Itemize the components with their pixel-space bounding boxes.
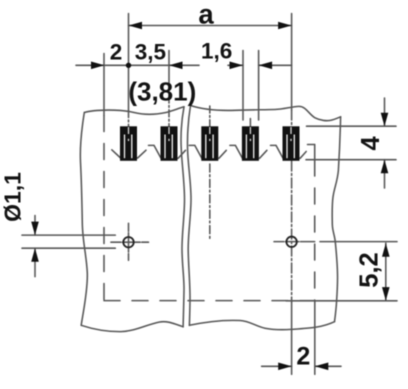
dimension line dim 4 upper tail [384, 98, 386, 126]
arrow dim 1,6 right (points left) [259, 62, 273, 70]
extension line pad5 centerline upper [291, 14, 293, 111]
extension line pad4 slot right [258, 51, 260, 121]
extension line dim 4 bottom [306, 159, 396, 161]
hole H2 crosshair horizontal [274, 241, 315, 243]
pin mark pad5 right diagonal [300, 152, 306, 159]
housing outline dashed right edge [314, 160, 316, 301]
dimension line 1,6 left tail [228, 64, 243, 66]
board outline right piece right edge [332, 117, 340, 322]
svg-text:3,5: 3,5 [135, 40, 166, 65]
arrow bottom dim 2 right (points left) [315, 363, 329, 371]
pad P1 [120, 126, 137, 161]
dimension line 1,6 right tail [259, 64, 292, 66]
arrow dim 5,2 top (points up) [382, 243, 390, 257]
hole H1 crosshair vertical [128, 223, 130, 260]
pin mark pad4 right diagonal [260, 150, 267, 158]
svg-text:(3,81): (3,81) [128, 77, 196, 107]
extension line dia 1,1 bottom [22, 247, 115, 249]
pin mark pad4 left [230, 145, 243, 158]
extension line for dim 2 top (housing left edge) [103, 54, 105, 116]
pad P3 slot lines [205, 135, 207, 159]
arrow dia 1,1 upper (points down) [31, 222, 39, 236]
dimension line dia 1,1 lower arrow tail [34, 248, 36, 276]
arrow dim a left [129, 22, 143, 30]
svg-text:4: 4 [357, 135, 385, 150]
pin mark pad1 left diagonal [112, 150, 121, 158]
dimension line 2 and 3,5 [76, 64, 199, 66]
extension line bottom dim 2 right [314, 301, 316, 375]
hole H1 circle [123, 237, 133, 247]
extension line dim 4 top [307, 125, 397, 127]
arrow dia 1,1 lower (points up) [31, 248, 39, 262]
svg-text:5,2: 5,2 [356, 252, 384, 287]
pad P2 [161, 126, 178, 161]
arrow dim 5,2 bottom (points down) [382, 287, 390, 301]
hole H1 crosshair horizontal [111, 241, 149, 243]
svg-text:1,6: 1,6 [201, 38, 232, 63]
pad P2 slot lines [164, 135, 166, 159]
pad P3 [201, 126, 218, 161]
extension line pad4 slot left [242, 51, 244, 121]
housing outline right edge solid stub [314, 145, 316, 162]
origin dot dim 2/3,5 [126, 63, 131, 68]
pad P4 [242, 126, 259, 161]
dimension line bottom 2 right tail [315, 365, 341, 367]
pad1 centerline dash-dot above pad [128, 111, 130, 127]
arrow dim a right [278, 22, 292, 30]
svg-text:2: 2 [110, 39, 123, 64]
pad P5 slot lines [286, 135, 288, 159]
board outline left piece left edge [80, 113, 87, 326]
arrow dim 4 lower (points up) [381, 160, 389, 174]
hole H2 circle [286, 237, 296, 247]
arrow dim 2 top (points right) [91, 62, 105, 70]
board outline right piece bottom edge [189, 320, 334, 329]
svg-text:Ø1,1: Ø1,1 [0, 172, 26, 222]
pad P1 slot lines [124, 135, 126, 159]
dimension line dim 4 lower tail [384, 160, 386, 188]
housing outline top bracket stub [308, 144, 315, 146]
pad5 centerline solid lower [291, 302, 293, 374]
pin mark pad2 right diagonal [178, 150, 185, 158]
pin mark pad3 right diagonal [219, 150, 226, 158]
pad4 centerline dash above pad [249, 119, 251, 127]
housing outline dashed left edge [103, 116, 105, 301]
pad3 centerline dash-dot above pad [209, 106, 211, 127]
dimension line dim 5,2 [385, 243, 387, 300]
dimension line a [129, 25, 292, 27]
pad3 centerline dash-dot below pad [209, 164, 211, 240]
extension line dia 1,1 top [22, 234, 115, 236]
pad2 centerline dash-dot above pad [168, 96, 170, 127]
dimension line dia 1,1 upper arrow tail [34, 216, 36, 236]
arrow dim 3,5 (points left) [169, 62, 183, 70]
board outline right piece top edge [191, 106, 341, 121]
housing outline dashed bottom edge [104, 300, 315, 302]
extension line pad2 centerline upper [168, 51, 170, 97]
arrow bottom dim 2 left (points right) [278, 363, 292, 371]
board outline left piece bottom edge [81, 322, 183, 332]
pin mark pad3 left [189, 145, 202, 158]
extension line dim 5,2 bottom [286, 300, 397, 302]
pin mark pad1 right diagonal [138, 150, 146, 158]
svg-text:2: 2 [296, 343, 310, 371]
board outline left piece top edge [84, 107, 184, 115]
pin mark pad2 left [149, 145, 162, 158]
arrow dim 1,6 left (points right) [230, 62, 244, 70]
board tear left edge [181, 107, 184, 327]
board tear right edge [188, 106, 191, 326]
pad5 centerline dash-dot through board [291, 110, 293, 302]
svg-text:a: a [198, 0, 214, 30]
extension line pad1 centerline upper [128, 14, 130, 111]
extension line dim 5,2 top [320, 241, 397, 243]
arrow dim 4 upper (points down) [381, 113, 389, 127]
pad P5 [283, 126, 300, 161]
dimension line bottom 2 left tail [262, 365, 292, 367]
pad P4 slot lines [245, 135, 247, 159]
pin mark pad5 left [271, 145, 284, 158]
